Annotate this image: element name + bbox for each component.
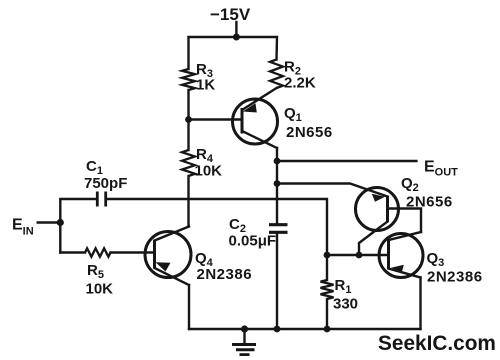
junction dot Ein node xyxy=(57,219,64,226)
svg-text:2.2K: 2.2K xyxy=(284,75,316,92)
wire C1 right lead feedback to R1 top xyxy=(106,199,327,280)
wire R5 to Q4 base xyxy=(111,251,155,253)
svg-text:2N656: 2N656 xyxy=(406,194,453,211)
svg-text:2N2386: 2N2386 xyxy=(427,269,483,286)
transistor Q1 xyxy=(233,88,333,148)
junction dot at -15V rail xyxy=(233,34,240,41)
resistor R4 xyxy=(182,150,195,176)
svg-text:2N2386: 2N2386 xyxy=(197,266,253,283)
svg-text:−15V: −15V xyxy=(210,5,251,24)
junction dot main line at rail xyxy=(274,326,281,333)
svg-text:10K: 10K xyxy=(86,281,114,298)
svg-text:2N656: 2N656 xyxy=(286,124,333,141)
ground xyxy=(232,329,256,355)
wire Ein lead xyxy=(38,221,61,223)
svg-text:0.05μF: 0.05μF xyxy=(229,233,277,250)
wire Q3 base lead xyxy=(327,254,389,256)
wire C1 left lead xyxy=(60,199,97,253)
svg-text:SeekIC.com: SeekIC.com xyxy=(378,332,496,355)
resistor R2 xyxy=(270,60,283,89)
transistor Q3 xyxy=(379,232,483,286)
junction dot Q2 emitter node xyxy=(274,180,281,187)
wire main vertical collector line upper xyxy=(276,148,278,223)
junction dot ground tap xyxy=(241,325,248,332)
junction dot Q1 base node xyxy=(185,116,192,123)
wire -15V stub xyxy=(235,22,237,37)
wire R1 bottom xyxy=(326,299,328,329)
svg-text:330: 330 xyxy=(333,296,358,313)
wire Ein to R5 xyxy=(60,251,85,253)
resistor R3 xyxy=(182,69,195,90)
wire Eout lead xyxy=(277,160,416,162)
junction dot Q2 collector node xyxy=(356,252,363,259)
wire Q3 emitter to ground rail xyxy=(419,278,421,330)
wire Q4 emitter to ground rail xyxy=(188,285,190,329)
wire top supply rail xyxy=(189,37,278,69)
junction dot R1 top / Q3 base node xyxy=(324,252,331,259)
wire Q2 emitter lead xyxy=(277,184,388,197)
junction dot R1 at rail xyxy=(324,326,331,333)
junction dot Eout node xyxy=(274,158,281,165)
svg-text:10K: 10K xyxy=(195,163,223,180)
wire Q1 base lead xyxy=(189,118,243,120)
wire left rail R3 to R4 xyxy=(187,90,189,150)
capacitor C1 xyxy=(84,158,127,207)
capacitor C2 xyxy=(229,216,288,250)
resistor R1 xyxy=(321,280,334,299)
wire ground rail xyxy=(189,328,421,330)
transistor Q4 xyxy=(145,227,252,286)
transistor Q2 xyxy=(356,175,453,255)
resistor R5 xyxy=(85,248,111,256)
wire left rail R4 to Q4 collector xyxy=(187,176,189,227)
svg-text:1K: 1K xyxy=(196,77,215,94)
svg-text:750pF: 750pF xyxy=(84,175,127,192)
wire main vertical collector line lower xyxy=(276,234,278,329)
